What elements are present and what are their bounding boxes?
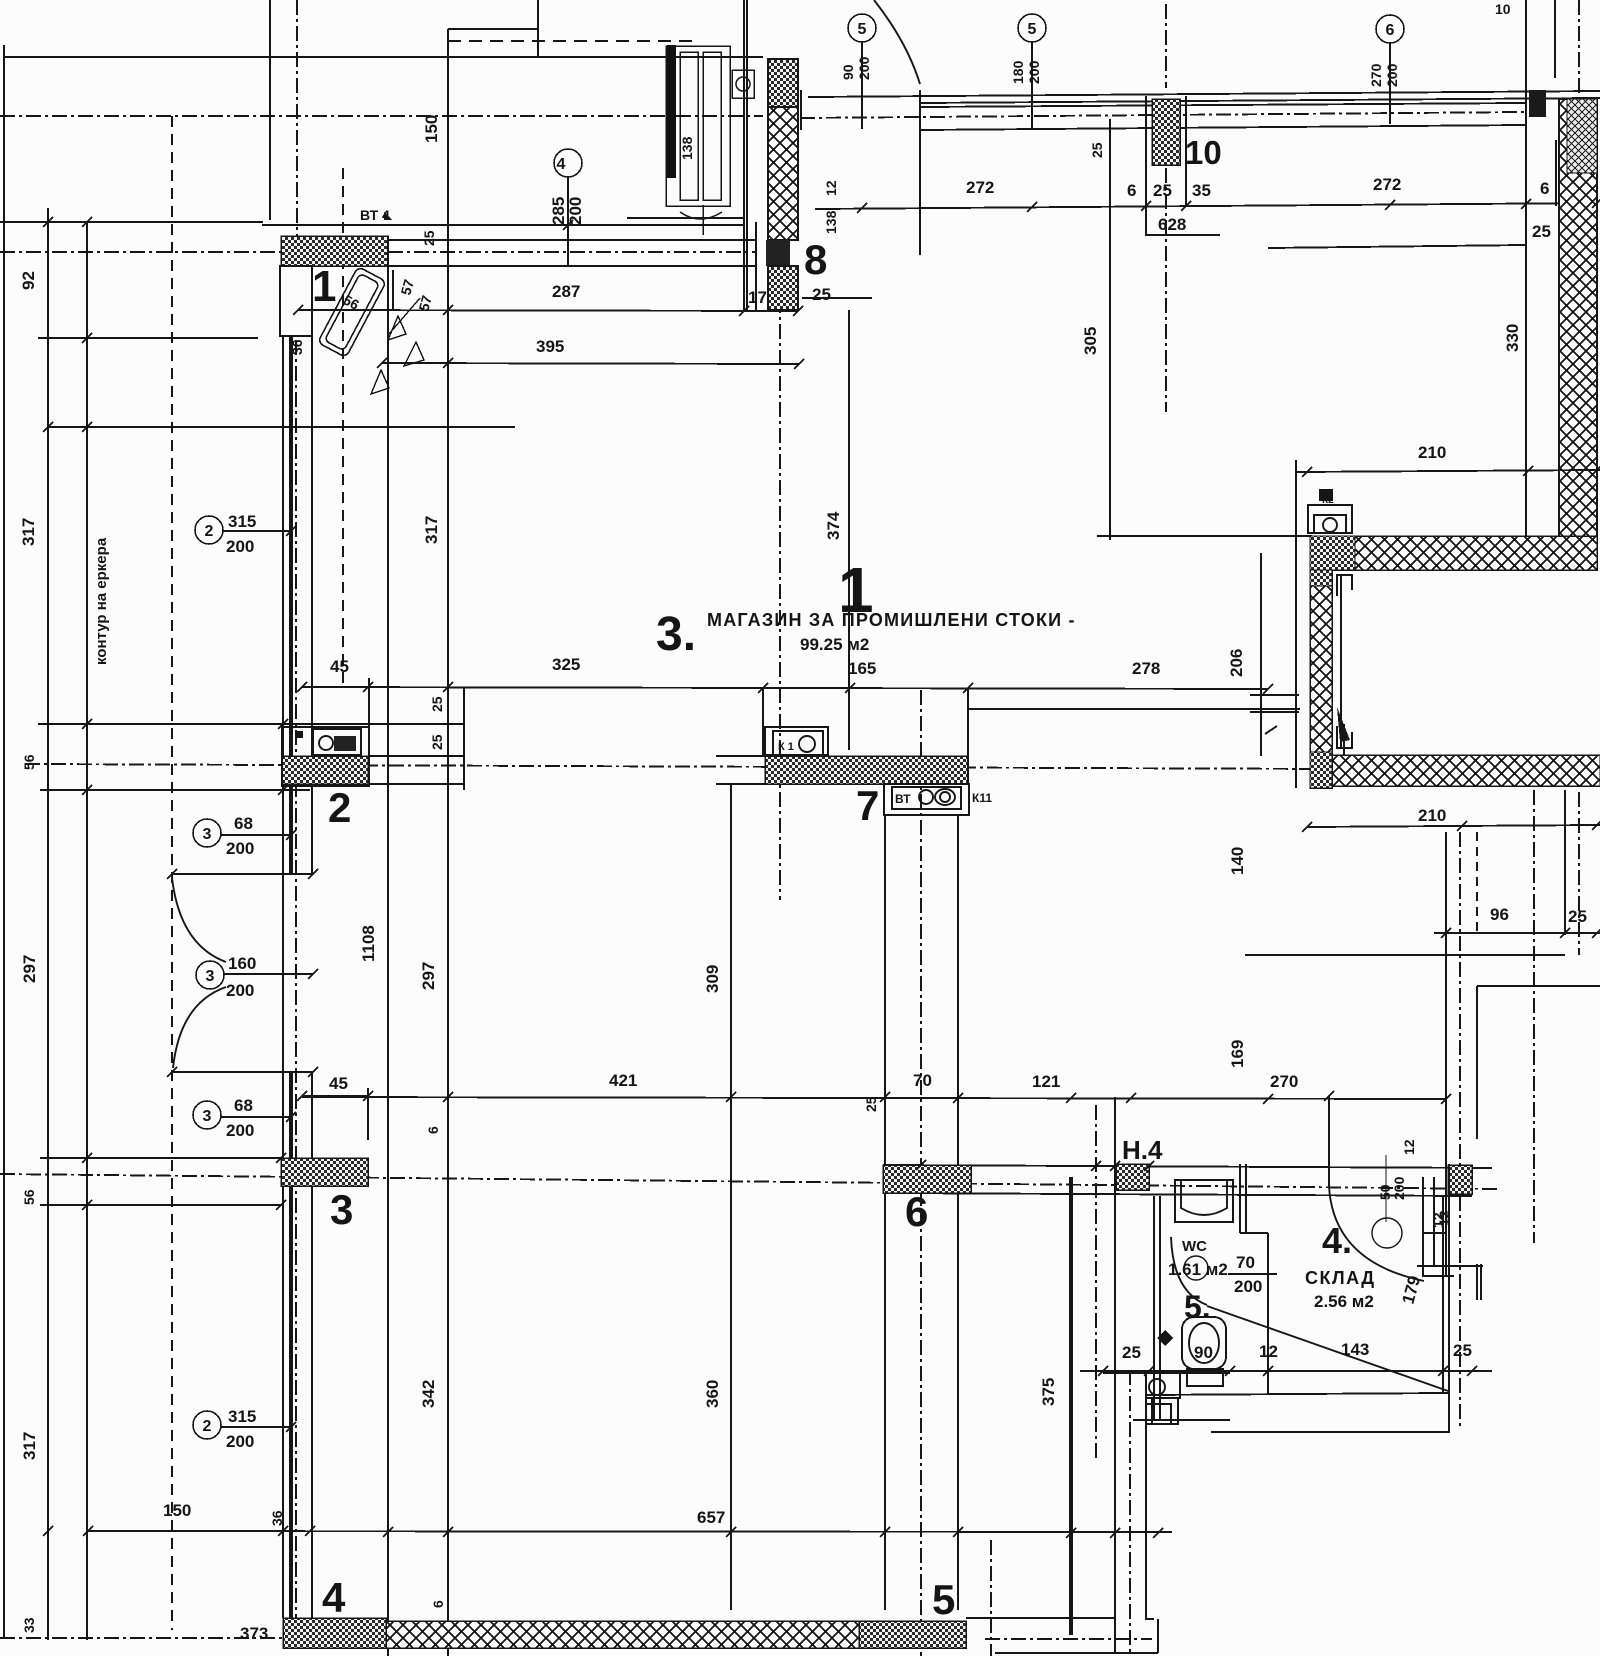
axis line vertical V4 (H.4): [1095, 1105, 1097, 1460]
tick triangle near BT4: [384, 212, 392, 220]
left dim chain vertical x87: [86, 222, 88, 1640]
svg-text:К 1: К 1: [778, 741, 794, 753]
storage door arc: [1329, 1186, 1424, 1281]
svg-text:1108: 1108: [359, 925, 378, 962]
svg-text:99.25 м2: 99.25 м2: [800, 635, 869, 654]
svg-text:ВТ: ВТ: [895, 792, 911, 806]
axis line vertical V3 (column axis): [920, 690, 922, 1656]
line y1233 right: [1422, 1232, 1446, 1234]
svg-text:200: 200: [226, 537, 254, 556]
svg-text:200: 200: [1234, 1277, 1262, 1296]
bottom step x1158: [1157, 1619, 1159, 1653]
axis line vertical V5: [1459, 832, 1461, 1430]
vertical x1296: [1295, 460, 1297, 788]
vertical x1477 seg: [1476, 986, 1478, 1139]
right wall hatch strip: [1559, 99, 1597, 545]
K11 fixture: [884, 784, 969, 815]
horizontal hatch band top of L: [1310, 536, 1597, 570]
svg-text:6: 6: [905, 1188, 928, 1235]
svg-text:2: 2: [205, 523, 214, 540]
column10 edge x1186: [1185, 96, 1187, 206]
left wall glazing outer x283: [282, 336, 284, 1618]
svg-text:68: 68: [234, 814, 253, 833]
wall right x1449: [1448, 1164, 1450, 1432]
wall thick seg y1372: [1103, 1370, 1230, 1374]
svg-text:287: 287: [552, 282, 580, 301]
svg-text:К2: К2: [1322, 495, 1334, 506]
svg-text:45: 45: [329, 1074, 348, 1093]
svg-text:33: 33: [21, 1617, 37, 1633]
left horizontal y338: [38, 337, 258, 339]
dim line 210 top: [1296, 470, 1600, 472]
vertical x1423: [1422, 1177, 1424, 1277]
svg-text:25: 25: [1532, 222, 1551, 241]
dim 25 line: [802, 297, 872, 299]
long vertical x388: [387, 236, 389, 1656]
svg-text:206: 206: [1227, 649, 1246, 677]
svg-text:70: 70: [913, 1071, 932, 1090]
svg-text:628: 628: [1158, 215, 1186, 234]
svg-text:278: 278: [1132, 659, 1160, 678]
svg-text:25: 25: [1122, 1343, 1141, 1362]
ext vertical x368: [367, 1088, 369, 1140]
svg-text:25: 25: [429, 696, 445, 712]
svg-text:210: 210: [1418, 806, 1446, 825]
svg-text:210: 210: [1418, 443, 1446, 462]
svg-text:56: 56: [21, 1189, 37, 1205]
wall left hatch block: [281, 1158, 368, 1186]
K9 fixture outer: [313, 729, 361, 755]
vertical x270 top: [269, 0, 271, 220]
vent circle: [1372, 1218, 1402, 1248]
ext vertical x464: [463, 687, 465, 790]
wall right edge x968: [967, 688, 969, 784]
top wall line y107: [920, 103, 1526, 107]
svg-text:92: 92: [19, 271, 38, 290]
svg-text:7: 7: [856, 782, 879, 829]
svg-text:25: 25: [812, 285, 831, 304]
left dim chain vertical x48: [47, 208, 49, 1640]
svg-text:200: 200: [226, 1121, 254, 1140]
mid wall main hatch band: [765, 756, 968, 784]
leader for 50: [1385, 1155, 1387, 1222]
svg-text:68: 68: [234, 1096, 253, 1115]
svg-text:6: 6: [430, 1600, 446, 1608]
entrance door arc: [874, 0, 920, 84]
svg-text:270: 270: [1270, 1072, 1298, 1091]
vertical x1446: [1445, 832, 1447, 1277]
dashed horizontal top (near radiator): [448, 40, 695, 42]
vertical x1115: [1114, 1097, 1116, 1618]
axis line vertical V4b: [1129, 1370, 1131, 1656]
line y1266: [1417, 1265, 1483, 1267]
svg-text:2: 2: [203, 1418, 212, 1435]
bottom edge y1653: [995, 1652, 1158, 1654]
vertical x1110: [1109, 119, 1111, 540]
axis line horizontal D (lower wall): [0, 1174, 1500, 1189]
wall line y756 left ext: [716, 755, 765, 757]
dim line y1096 main: [302, 1097, 1446, 1099]
svg-text:4: 4: [322, 1574, 346, 1621]
left dim line y427: [48, 426, 515, 428]
left horizontal y1205: [40, 1204, 281, 1206]
bottom band lattice: [386, 1621, 859, 1648]
storage door hinge vertical: [1328, 1096, 1330, 1186]
partition y1233: [1240, 1232, 1268, 1234]
wall line y955: [1245, 954, 1565, 956]
svg-text:6: 6: [1386, 22, 1395, 39]
window band dashdot y252: [388, 251, 756, 253]
vertical x1434: [1433, 1177, 1435, 1266]
left horizontal y790: [40, 789, 310, 791]
svg-text:297: 297: [419, 962, 438, 990]
sink outer: [1175, 1180, 1233, 1222]
svg-text:Н.4: Н.4: [1122, 1135, 1163, 1165]
svg-text:МАГАЗИН ЗА ПРОМИШЛЕНИ СТОКИ -: МАГАЗИН ЗА ПРОМИШЛЕНИ СТОКИ -: [707, 610, 1076, 630]
dimension tick marks: [43, 198, 1600, 1538]
column strip right x958: [957, 815, 959, 1610]
svg-text:315: 315: [228, 1407, 256, 1426]
dim line y712 right: [1250, 711, 1299, 713]
door swing arrows: [371, 298, 424, 394]
wall left edge x763: [762, 688, 764, 756]
K9 dark fill: [334, 736, 356, 751]
wall-8 hatch strip mid: [768, 107, 798, 240]
dim line 210 bottom: [1307, 825, 1600, 827]
circled axis 2 (lower): [193, 1411, 291, 1439]
svg-text:165: 165: [848, 659, 876, 678]
svg-text:160: 160: [228, 954, 256, 973]
bottom step x1115: [1114, 1618, 1116, 1653]
svg-text:200: 200: [226, 981, 254, 1000]
wall-8 dark block: [766, 240, 790, 266]
wc left wall x1160: [1159, 1196, 1161, 1420]
svg-text:200: 200: [1391, 1176, 1407, 1200]
svg-text:25: 25: [1089, 142, 1105, 158]
svg-text:90: 90: [840, 64, 856, 80]
circled axis 2 (upper): [195, 516, 291, 544]
axis line horizontal E (bottom left): [0, 1637, 283, 1639]
rooms bottom y1393: [1146, 1393, 1449, 1395]
wc left wall x1154: [1153, 1196, 1155, 1420]
svg-text:25: 25: [421, 230, 437, 246]
circled axis 3 (68 upper): [193, 819, 291, 847]
circled axis 3 (68 lower): [193, 1101, 291, 1129]
wall line y986: [1477, 985, 1600, 987]
svg-text:272: 272: [966, 178, 994, 197]
svg-text:5: 5: [932, 1576, 955, 1623]
wc door arc: [1171, 1237, 1207, 1305]
svg-text:3.: 3.: [656, 608, 696, 661]
niche inner line: [280, 335, 312, 337]
svg-text:270: 270: [1368, 63, 1384, 87]
jamb L mark top: [1337, 575, 1352, 596]
left border vertical: [3, 45, 5, 1639]
toilet tank: [1187, 1369, 1223, 1386]
svg-text:4: 4: [557, 156, 566, 173]
opening bottom sill: [171, 1071, 313, 1073]
axis line vertical V1b (left wall, through glazing): [295, 340, 297, 1618]
svg-text:200: 200: [1026, 60, 1042, 84]
svg-text:374: 374: [824, 511, 843, 540]
dim line y1371: [1080, 1370, 1492, 1372]
room1 vertical x849: [848, 310, 850, 750]
svg-text:297: 297: [20, 955, 39, 983]
svg-text:96: 96: [1490, 905, 1509, 924]
svg-text:СКЛАД: СКЛАД: [1305, 1268, 1376, 1288]
axis line vertical V8 (right): [1578, 792, 1580, 955]
short vertical x538 top: [537, 0, 539, 57]
svg-text:5: 5: [1028, 21, 1037, 38]
jamb extension x920: [919, 130, 921, 255]
dim line y708: [968, 708, 1300, 710]
svg-text:1.61 м2: 1.61 м2: [1168, 1260, 1228, 1279]
wall line y784 left ext: [716, 783, 765, 785]
small arrow mark: [1265, 726, 1277, 734]
svg-text:180: 180: [1010, 60, 1026, 84]
dashed vertical x343: [342, 168, 344, 690]
axis line horizontal A (top): [0, 115, 763, 117]
svg-text:272: 272: [1373, 175, 1401, 194]
svg-text:90: 90: [1194, 1343, 1213, 1362]
wall-8 hatch strip top: [768, 59, 798, 107]
svg-text:56: 56: [21, 754, 37, 770]
svg-text:360: 360: [703, 1380, 722, 1408]
svg-text:35: 35: [1192, 181, 1211, 200]
svg-text:12: 12: [1401, 1139, 1417, 1155]
svg-text:6: 6: [425, 1126, 441, 1134]
checker seg of band: [1310, 536, 1355, 570]
room1 right jamb x744: [743, 0, 745, 311]
K9 circle: [319, 736, 333, 750]
K2 fixture: [1308, 505, 1352, 533]
svg-text:6: 6: [1127, 181, 1136, 200]
line y1276 right: [1422, 1275, 1454, 1277]
svg-text:5: 5: [858, 21, 867, 38]
jamb line x756: [755, 222, 757, 311]
window band line y240: [388, 239, 756, 241]
window band line y266: [388, 265, 756, 267]
column strip left x885: [884, 815, 886, 1610]
dim line y310: [298, 310, 798, 311]
svg-text:421: 421: [609, 1071, 637, 1090]
wall line y724: [38, 723, 465, 725]
svg-text:317: 317: [422, 516, 441, 544]
bottom-right wall band of L: [1332, 755, 1600, 786]
ext vertical x369: [368, 678, 370, 756]
inner face vertical x1341: [1340, 575, 1342, 748]
entry jamb x920: [919, 90, 921, 130]
column10 edge x1146: [1145, 96, 1147, 235]
dim line y688: [302, 687, 1268, 689]
circled axis 4: [554, 149, 582, 265]
wall8 corner vertical: [800, 90, 802, 130]
plumbing boxes bottom: [1146, 1372, 1180, 1398]
628 dim line: [1145, 234, 1220, 236]
svg-text:317: 317: [19, 518, 38, 546]
circled axis 6: [1376, 15, 1404, 124]
axis line vertical V1 (left wall top): [296, 0, 298, 250]
opening top sill: [171, 873, 313, 875]
axis dashdot col10 x1166 top: [1165, 4, 1167, 88]
svg-text:WC: WC: [1182, 1238, 1207, 1255]
svg-text:25: 25: [429, 734, 445, 750]
room1 right jamb x747: [746, 0, 748, 311]
H4 hatch block: [1116, 1164, 1149, 1190]
bottom step line y1618: [966, 1617, 1115, 1619]
svg-text:121: 121: [1032, 1072, 1060, 1091]
svg-text:10: 10: [1495, 1, 1511, 17]
column 6 hatch: [883, 1165, 971, 1193]
wall line y784 right seg: [370, 783, 465, 785]
dim line y933: [1434, 932, 1600, 934]
thick vertical x1071: [1069, 1177, 1073, 1635]
bay window contour dashed vertical: [171, 116, 173, 1630]
svg-text:25: 25: [863, 1096, 879, 1112]
toilet bowl: [1182, 1317, 1226, 1369]
dark block corner: [1529, 90, 1546, 117]
radiator: [666, 45, 754, 235]
top wall dashdot y117: [800, 112, 1526, 118]
right hatch block: [1448, 1165, 1472, 1194]
svg-text:200: 200: [856, 56, 872, 80]
svg-text:25: 25: [1153, 181, 1172, 200]
axis line horizontal B (left short): [0, 251, 282, 253]
left wall glazing thick x291 lower: [289, 1072, 293, 1618]
svg-text:309: 309: [703, 965, 722, 993]
top wall line y97: [808, 91, 1600, 97]
axis line vertical V6: [1533, 790, 1535, 1243]
mid wall left hatch block: [282, 756, 368, 784]
svg-text:395: 395: [536, 337, 564, 356]
storage door diagonal: [1207, 1306, 1448, 1391]
svg-text:330: 330: [1503, 324, 1522, 352]
svg-text:8: 8: [804, 236, 827, 283]
dim row y248: [1268, 245, 1526, 248]
left horizontal y222: [0, 221, 263, 223]
long vertical x448: [447, 29, 449, 1656]
K9 small square: [297, 731, 303, 738]
svg-text:342: 342: [419, 1380, 438, 1408]
axis line horizontal C (middle wall): [25, 764, 1600, 770]
svg-text:контур на еркера: контур на еркера: [93, 537, 110, 665]
svg-text:200: 200: [1384, 63, 1400, 87]
door jamb x393: [392, 270, 394, 310]
svg-text:25: 25: [1453, 1341, 1472, 1360]
corridor top line y536: [1097, 535, 1312, 537]
svg-text:45: 45: [330, 657, 349, 676]
axis line vertical V2: [779, 116, 781, 900]
svg-text:657: 657: [697, 1508, 725, 1527]
svg-text:70: 70: [1236, 1253, 1255, 1272]
axis line horizontal E2 (bottom mid): [985, 1638, 1152, 1640]
svg-text:138: 138: [679, 136, 695, 160]
checker bottom seg: [1310, 752, 1332, 788]
svg-text:200: 200: [226, 839, 254, 858]
svg-text:12: 12: [1259, 1342, 1278, 1361]
svg-text:12: 12: [823, 180, 839, 196]
svg-text:5.: 5.: [1184, 1289, 1211, 1325]
wc bottom y1420: [1133, 1419, 1230, 1421]
axis dashdot x1579 top: [1578, 0, 1580, 95]
sink inner: [1181, 1180, 1227, 1215]
svg-text:373: 373: [240, 1624, 268, 1643]
top strip line y29: [448, 28, 538, 30]
svg-text:325: 325: [552, 655, 580, 674]
svg-text:1: 1: [312, 262, 336, 311]
svg-text:2: 2: [328, 784, 351, 831]
svg-text:138: 138: [823, 210, 839, 234]
lintel line y225: [262, 224, 744, 226]
ext vertical x1261: [1260, 553, 1262, 756]
door leaf room 1 (tilted): [318, 267, 387, 358]
section arrow mark: [1337, 707, 1350, 742]
column 10 hatch: [1152, 99, 1180, 165]
storage right x1443: [1442, 1196, 1444, 1393]
dim row y206: [815, 203, 1597, 209]
wall line y1165: [883, 1165, 1492, 1168]
door niche outline: [280, 266, 312, 336]
dim line y363: [382, 363, 799, 364]
left horizontal y1158: [40, 1157, 281, 1159]
floor drain diamond: [1157, 1330, 1173, 1346]
top wall line y103: [920, 98, 1600, 103]
right wall inner x1526: [1525, 0, 1527, 536]
door arc upper: [172, 878, 226, 962]
svg-text:10: 10: [1185, 134, 1222, 171]
svg-text:375: 375: [1039, 1378, 1058, 1406]
partition x1268: [1267, 1233, 1269, 1393]
vertical x731: [730, 784, 732, 1610]
svg-text:143: 143: [1341, 1340, 1369, 1359]
svg-text:150: 150: [422, 115, 441, 143]
dim line y695 right: [1250, 694, 1299, 696]
toilet inner: [1189, 1323, 1219, 1363]
top wall line y130: [920, 125, 1526, 130]
svg-text:25: 25: [1568, 907, 1587, 926]
circle on 1.61: [1184, 1256, 1208, 1280]
vertical x1146 low: [1145, 1398, 1147, 1600]
circled axis 5b: [1018, 14, 1046, 129]
K9 box outline: [282, 727, 369, 786]
svg-text:305: 305: [1081, 327, 1100, 355]
svg-text:3: 3: [206, 968, 215, 985]
right wall top dense part: [1567, 99, 1597, 173]
bottom band checker right: [859, 1621, 966, 1648]
svg-text:12: 12: [1430, 1212, 1446, 1228]
line y1432: [1211, 1431, 1450, 1433]
axis line vertical V7 (bottom): [990, 1540, 992, 1656]
axis dashdot col10 x1166: [1165, 168, 1167, 412]
svg-text:4.: 4.: [1322, 1220, 1352, 1261]
partition x1240: [1239, 1164, 1241, 1233]
vertical x1481 low: [1480, 1264, 1482, 1300]
svg-text:140: 140: [1228, 847, 1247, 875]
svg-text:36: 36: [269, 1510, 285, 1526]
svg-text:2.56 м2: 2.56 м2: [1314, 1292, 1374, 1311]
vertical x1555 top: [1554, 0, 1556, 78]
jamb L mark bottom: [1337, 726, 1352, 748]
left wall inner x312: [311, 336, 313, 874]
left wall inner x312 lower: [311, 1072, 313, 1618]
dashed vertical x1477 top: [1476, 832, 1478, 935]
vertical x1556 mid: [1555, 140, 1557, 206]
svg-text:317: 317: [20, 1432, 39, 1460]
vertical x1477 low: [1476, 1264, 1478, 1300]
svg-text:6: 6: [1540, 179, 1549, 198]
left horizontal y1531 dim line: [88, 1531, 1172, 1532]
top horizontal line y57: [4, 56, 763, 58]
